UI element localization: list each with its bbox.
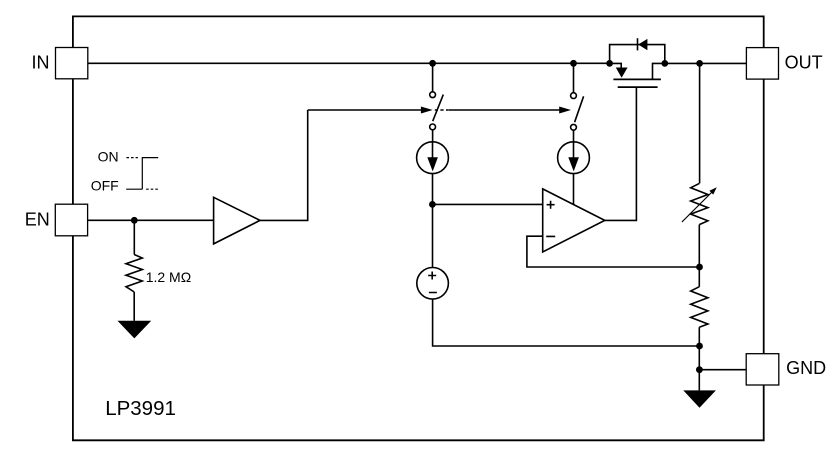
svg-text:LP3991: LP3991 [105, 397, 176, 420]
svg-text:EN: EN [25, 209, 50, 229]
svg-text:OFF: OFF [91, 178, 119, 194]
svg-text:OUT: OUT [785, 53, 823, 73]
svg-text:IN: IN [32, 53, 50, 73]
svg-text:GND: GND [786, 358, 826, 378]
svg-text:ON: ON [98, 149, 119, 165]
svg-text:1.2 MΩ: 1.2 MΩ [146, 269, 191, 285]
